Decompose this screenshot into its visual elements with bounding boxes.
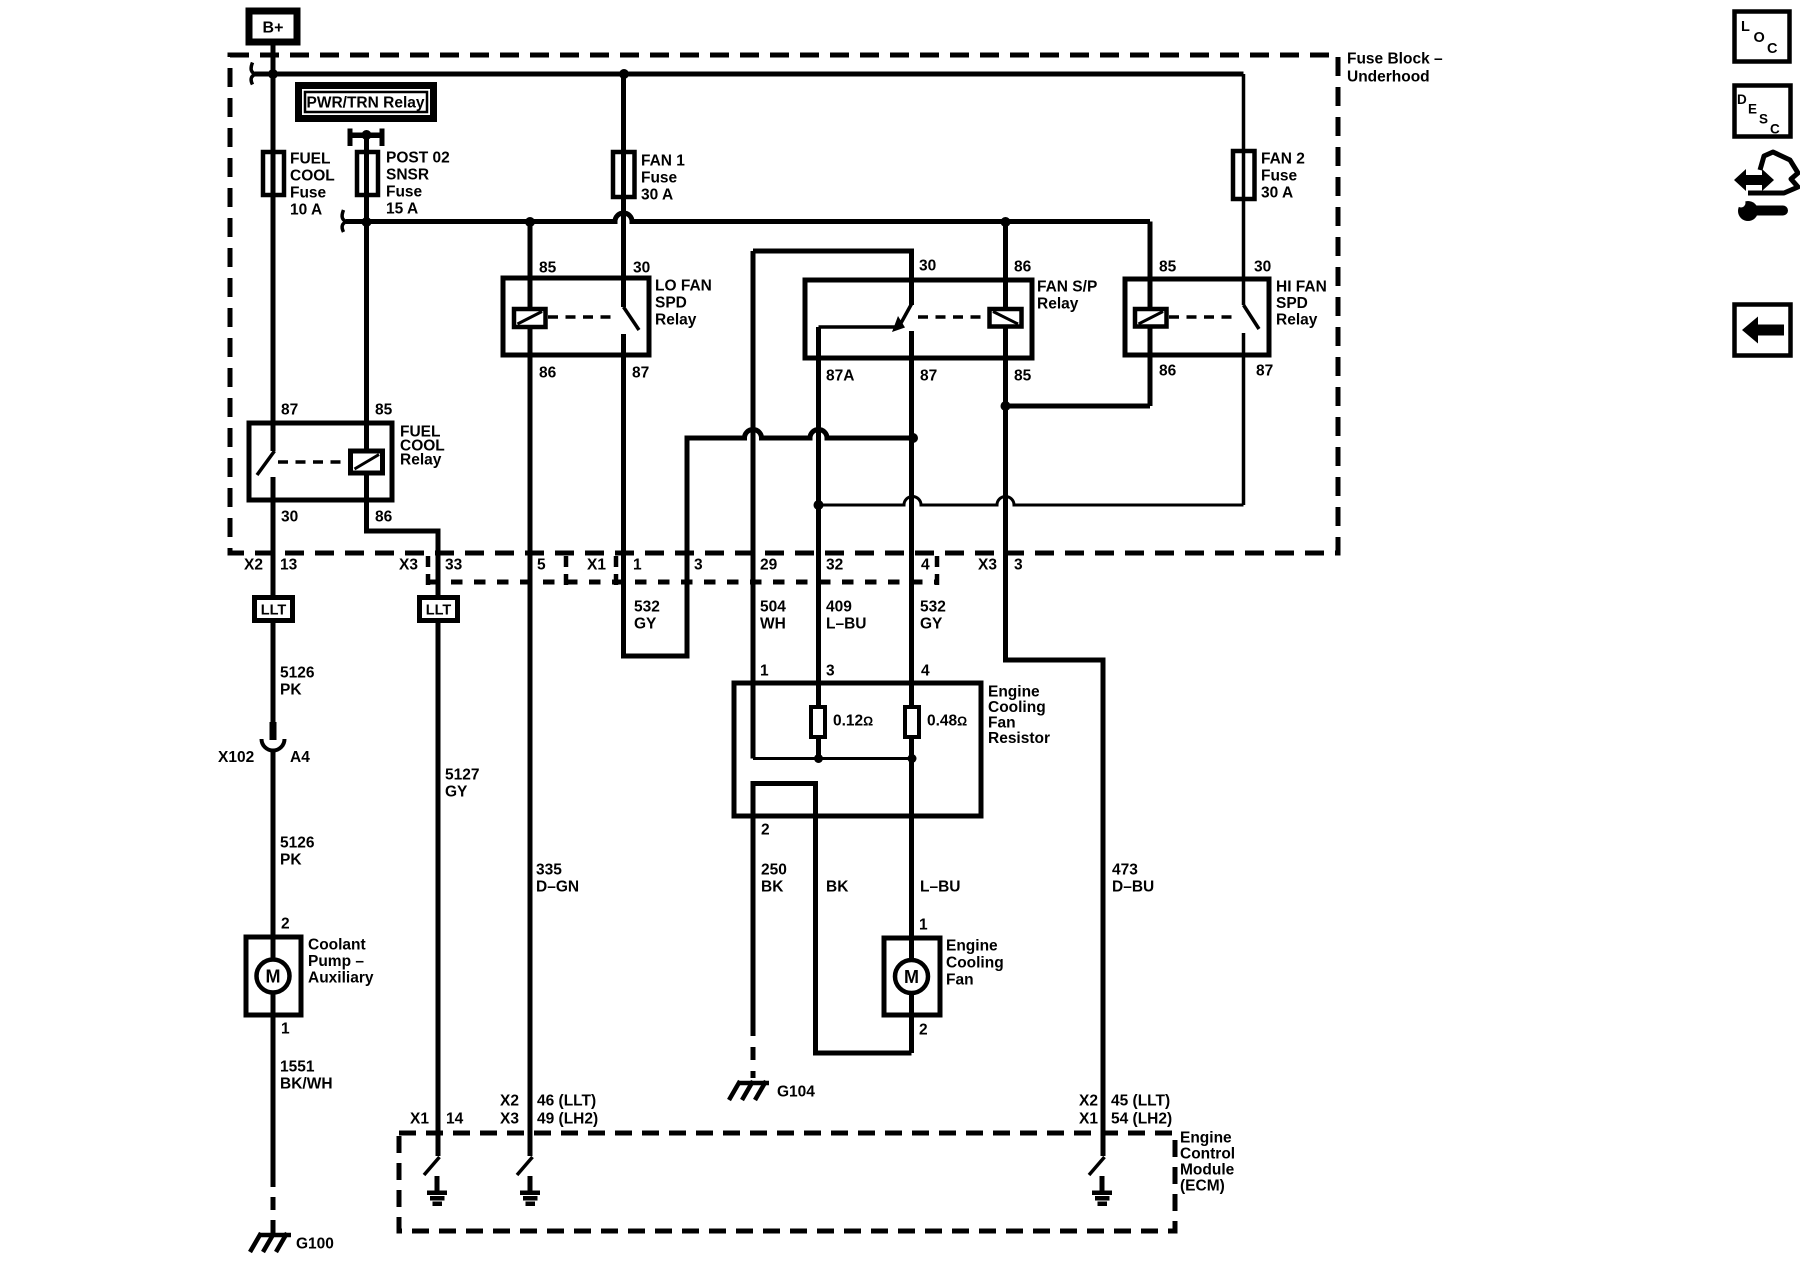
- svg-text:2: 2: [761, 822, 770, 839]
- svg-text:2: 2: [281, 916, 290, 933]
- svg-text:30 A: 30 A: [1261, 185, 1293, 202]
- svg-text:32: 32: [826, 557, 843, 574]
- svg-text:86: 86: [1159, 363, 1177, 380]
- svg-text:Coolant: Coolant: [308, 937, 366, 954]
- svg-text:Control: Control: [1180, 1146, 1235, 1163]
- svg-text:X1: X1: [587, 557, 606, 574]
- svg-text:Module: Module: [1180, 1162, 1235, 1179]
- svg-text:HI FAN: HI FAN: [1276, 279, 1327, 296]
- svg-text:X1: X1: [1079, 1111, 1098, 1128]
- svg-text:GY: GY: [634, 616, 657, 633]
- svg-text:Pump –: Pump –: [308, 953, 364, 970]
- svg-text:5: 5: [537, 557, 546, 574]
- svg-text:BK: BK: [826, 879, 849, 896]
- svg-text:3: 3: [826, 663, 835, 680]
- svg-text:Relay: Relay: [400, 452, 442, 469]
- svg-text:D–GN: D–GN: [536, 879, 579, 896]
- svg-text:Cooling: Cooling: [988, 699, 1046, 716]
- svg-text:1: 1: [633, 557, 642, 574]
- svg-text:G100: G100: [296, 1236, 334, 1253]
- svg-text:SNSR: SNSR: [386, 167, 429, 184]
- svg-text:LO FAN: LO FAN: [655, 278, 712, 295]
- svg-text:87A: 87A: [826, 368, 854, 385]
- svg-text:X2: X2: [500, 1093, 519, 1110]
- svg-text:PK: PK: [280, 682, 302, 699]
- svg-text:1551: 1551: [280, 1059, 315, 1076]
- svg-text:29: 29: [760, 557, 778, 574]
- svg-text:Fuse: Fuse: [1261, 168, 1298, 185]
- svg-text:PWR/TRN Relay: PWR/TRN Relay: [307, 95, 425, 112]
- svg-text:X3: X3: [399, 557, 418, 574]
- svg-text:85: 85: [375, 402, 393, 419]
- svg-text:SPD: SPD: [1276, 295, 1308, 312]
- svg-text:14: 14: [446, 1111, 464, 1128]
- svg-text:13: 13: [280, 557, 298, 574]
- svg-text:C: C: [1767, 41, 1778, 57]
- svg-text:X102: X102: [218, 749, 254, 766]
- svg-text:Fan: Fan: [946, 972, 974, 989]
- svg-text:Auxiliary: Auxiliary: [308, 970, 374, 987]
- svg-text:Fuse: Fuse: [386, 184, 423, 201]
- svg-text:49 (LH2): 49 (LH2): [537, 1111, 598, 1128]
- svg-text:PK: PK: [280, 852, 302, 869]
- svg-text:GY: GY: [445, 784, 468, 801]
- svg-text:Engine: Engine: [988, 684, 1040, 701]
- svg-text:4: 4: [921, 557, 930, 574]
- svg-text:Relay: Relay: [1037, 296, 1079, 313]
- svg-text:Relay: Relay: [655, 312, 697, 329]
- svg-text:COOL: COOL: [290, 168, 335, 185]
- svg-text:Underhood: Underhood: [1347, 69, 1430, 86]
- svg-text:86: 86: [375, 509, 393, 526]
- svg-text:54 (LH2): 54 (LH2): [1111, 1111, 1172, 1128]
- svg-text:L–BU: L–BU: [826, 616, 866, 633]
- svg-text:G104: G104: [777, 1084, 815, 1101]
- svg-text:5126: 5126: [280, 835, 315, 852]
- svg-text:WH: WH: [760, 616, 786, 633]
- svg-text:B+: B+: [263, 20, 284, 37]
- svg-text:4: 4: [921, 663, 930, 680]
- svg-text:L: L: [1741, 19, 1750, 35]
- svg-text:1: 1: [919, 917, 928, 934]
- svg-text:473: 473: [1112, 862, 1138, 879]
- svg-text:X2: X2: [244, 557, 263, 574]
- svg-text:Fuse Block –: Fuse Block –: [1347, 51, 1443, 68]
- svg-text:409: 409: [826, 599, 852, 616]
- svg-text:30: 30: [281, 509, 298, 526]
- svg-text:45 (LLT): 45 (LLT): [1111, 1093, 1170, 1110]
- svg-text:X2: X2: [1079, 1093, 1098, 1110]
- svg-text:C: C: [1770, 122, 1780, 137]
- svg-text:335: 335: [536, 862, 562, 879]
- svg-text:30: 30: [919, 258, 936, 275]
- svg-text:Engine: Engine: [946, 938, 998, 955]
- svg-text:5126: 5126: [280, 665, 315, 682]
- svg-text:Fan: Fan: [988, 715, 1016, 732]
- svg-text:3: 3: [694, 557, 703, 574]
- svg-text:0.12Ω: 0.12Ω: [833, 713, 873, 730]
- svg-text:X1: X1: [410, 1111, 429, 1128]
- svg-text:Cooling: Cooling: [946, 955, 1004, 972]
- svg-text:85: 85: [1014, 368, 1032, 385]
- svg-text:532: 532: [920, 599, 946, 616]
- svg-text:BK/WH: BK/WH: [280, 1076, 333, 1093]
- svg-text:L–BU: L–BU: [920, 879, 960, 896]
- svg-text:M: M: [904, 967, 919, 987]
- svg-text:O: O: [1754, 30, 1765, 46]
- svg-text:87: 87: [632, 365, 649, 382]
- svg-text:SPD: SPD: [655, 295, 687, 312]
- svg-text:87: 87: [1256, 363, 1273, 380]
- svg-text:Resistor: Resistor: [988, 730, 1050, 747]
- svg-text:Engine: Engine: [1180, 1130, 1232, 1147]
- svg-text:FAN S/P: FAN S/P: [1037, 279, 1097, 296]
- svg-text:86: 86: [1014, 259, 1032, 276]
- svg-text:GY: GY: [920, 616, 943, 633]
- svg-text:LLT: LLT: [261, 603, 287, 619]
- svg-text:FUEL: FUEL: [290, 151, 330, 168]
- svg-text:30: 30: [1254, 259, 1271, 276]
- svg-text:10 A: 10 A: [290, 202, 322, 219]
- svg-text:BK: BK: [761, 879, 784, 896]
- svg-text:85: 85: [539, 260, 557, 277]
- svg-text:D: D: [1737, 92, 1747, 107]
- svg-text:E: E: [1748, 102, 1757, 117]
- svg-text:FAN 2: FAN 2: [1261, 151, 1305, 168]
- svg-text:5127: 5127: [445, 767, 479, 784]
- svg-text:1: 1: [281, 1021, 290, 1038]
- svg-text:2: 2: [919, 1022, 928, 1039]
- svg-text:3: 3: [1014, 557, 1023, 574]
- svg-text:532: 532: [634, 599, 660, 616]
- svg-text:30: 30: [633, 260, 650, 277]
- svg-text:Relay: Relay: [1276, 312, 1318, 329]
- svg-text:30 A: 30 A: [641, 187, 673, 204]
- svg-text:LLT: LLT: [426, 603, 452, 619]
- svg-text:250: 250: [761, 862, 787, 879]
- svg-text:1: 1: [760, 663, 769, 680]
- svg-text:(ECM): (ECM): [1180, 1178, 1225, 1195]
- svg-text:0.48Ω: 0.48Ω: [927, 713, 967, 730]
- svg-text:33: 33: [445, 557, 463, 574]
- svg-text:504: 504: [760, 599, 786, 616]
- svg-text:46 (LLT): 46 (LLT): [537, 1093, 596, 1110]
- svg-text:Fuse: Fuse: [641, 170, 678, 187]
- svg-text:D–BU: D–BU: [1112, 879, 1154, 896]
- svg-text:X3: X3: [978, 557, 997, 574]
- svg-text:Fuse: Fuse: [290, 185, 327, 202]
- svg-text:POST 02: POST 02: [386, 150, 450, 167]
- svg-text:X3: X3: [500, 1111, 519, 1128]
- svg-text:86: 86: [539, 365, 557, 382]
- svg-text:87: 87: [920, 368, 937, 385]
- svg-text:87: 87: [281, 402, 298, 419]
- svg-text:FAN 1: FAN 1: [641, 153, 685, 170]
- svg-text:A4: A4: [290, 749, 310, 766]
- svg-text:15 A: 15 A: [386, 201, 418, 218]
- svg-text:85: 85: [1159, 259, 1177, 276]
- svg-text:M: M: [266, 967, 281, 987]
- svg-text:S: S: [1759, 112, 1768, 127]
